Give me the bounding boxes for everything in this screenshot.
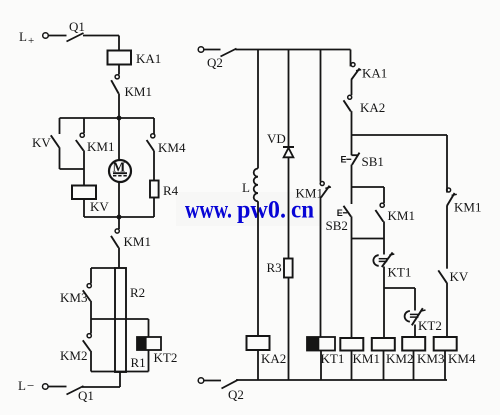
svg-text:pw0.: pw0. (237, 197, 286, 224)
switch Q2 bottom (204, 380, 238, 389)
right ladder: contact KM1 (447, 135, 457, 269)
relay coil KV (72, 186, 109, 218)
terminal L+ (19, 29, 48, 47)
svg-text:cn: cn (291, 197, 314, 224)
contact KV (right) (438, 270, 447, 337)
svg-text:KT2: KT2 (418, 318, 442, 333)
svg-text:KM1: KM1 (388, 208, 415, 223)
contact KM1 (below motor mesh) (111, 217, 119, 268)
svg-text:R2: R2 (130, 285, 145, 300)
branch wire to right ladder (352, 134, 448, 136)
main ladder: KA1 contact (351, 50, 362, 96)
contact KV (left) (51, 118, 84, 169)
bottom rail of motor mesh (84, 216, 154, 218)
svg-text:Q1: Q1 (78, 388, 94, 403)
wire down to Q1 bottom (119, 372, 121, 388)
junction dot (117, 215, 122, 220)
diode VD branch (283, 50, 294, 259)
svg-text:E: E (341, 155, 347, 165)
svg-text:L: L (242, 180, 250, 195)
wire (118, 65, 120, 75)
contact KM1 (parallel with KV) (76, 118, 84, 186)
contact KM4 (147, 118, 155, 181)
svg-text:SB1: SB1 (362, 154, 384, 169)
svg-text:KM4: KM4 (158, 140, 186, 155)
terminal Q2 bottom (198, 378, 204, 384)
svg-text:KM1: KM1 (125, 84, 152, 99)
svg-text:KV: KV (450, 269, 469, 284)
switch Q2 top (204, 49, 237, 57)
svg-text:KA2: KA2 (261, 351, 286, 366)
switch Q1 top (48, 33, 119, 42)
svg-text:L: L (18, 378, 26, 393)
svg-text:Q2: Q2 (228, 387, 244, 402)
svg-text:KT1: KT1 (321, 351, 345, 366)
svg-text:R3: R3 (267, 260, 282, 275)
pushbutton SB2 (NO) (343, 187, 352, 239)
contact KM1 (KT1 branch) (320, 50, 331, 338)
time relay coil KT2 (left circuit) (137, 319, 178, 372)
contactor coil KM1 (bottom row) (340, 338, 380, 380)
top rail of motor mesh (60, 117, 155, 119)
switch Q1 bottom (48, 386, 120, 395)
svg-text:KM3: KM3 (417, 351, 444, 366)
svg-text:VD: VD (267, 131, 286, 146)
svg-text:KM1: KM1 (124, 234, 151, 249)
svg-text:KM1: KM1 (87, 139, 114, 154)
svg-text:www.: www. (185, 197, 232, 224)
contact KM2 (83, 319, 91, 372)
svg-text:KA1: KA1 (362, 66, 387, 81)
svg-text:KM3: KM3 (60, 290, 87, 305)
relay coil KA2 (bottom row) (247, 336, 287, 380)
svg-text:KT1: KT1 (388, 265, 412, 280)
terminal Q2 top (198, 47, 204, 53)
svg-text:KM1: KM1 (353, 351, 380, 366)
junction dot (117, 116, 122, 121)
svg-text:KT2: KT2 (154, 350, 178, 365)
time contact KT2 (delayed) (405, 288, 426, 337)
contactor coil KM3 (bottom row) (402, 337, 444, 380)
wire down to KM1 coil (351, 239, 353, 339)
contact KM1 (below KA1) (111, 75, 119, 118)
motor M (109, 118, 131, 217)
wire to KA1 (118, 36, 120, 52)
terminal L- (18, 378, 48, 393)
svg-text:Q2: Q2 (207, 55, 223, 70)
svg-text:KV: KV (32, 135, 51, 150)
pushbutton SB1 (NC) (346, 135, 359, 187)
contactor coil KM4 (bottom row) (434, 337, 476, 380)
contact KM3 (83, 268, 91, 319)
wire down to KM2 coil (383, 288, 385, 338)
time relay coil KT1 (bottom row) (307, 337, 345, 380)
svg-text:Q1: Q1 (69, 19, 85, 34)
svg-text:KM2: KM2 (386, 351, 413, 366)
svg-text:R4: R4 (163, 183, 179, 198)
branch wire to seal-in (352, 186, 385, 188)
svg-text:KV: KV (90, 199, 109, 214)
resistor R2/R1 block (91, 268, 149, 372)
branch wire to KT2 (384, 287, 415, 289)
time contact KT1 (delayed) (373, 239, 394, 289)
svg-text:+: + (28, 35, 34, 47)
svg-text:KM1: KM1 (296, 186, 323, 201)
contactor coil KM2 (bottom row) (372, 338, 414, 380)
inductor L branch (254, 50, 258, 337)
svg-text:KM4: KM4 (448, 351, 476, 366)
svg-text:R1: R1 (131, 355, 146, 370)
svg-text:KM2: KM2 (60, 348, 87, 363)
svg-text:KA2: KA2 (360, 100, 385, 115)
contact KM1 (seal-in) (375, 187, 384, 239)
resistor R3 (267, 259, 293, 381)
resistor R4 (150, 181, 179, 218)
svg-text:E: E (337, 208, 343, 218)
svg-text:SB2: SB2 (326, 218, 348, 233)
bottom rail of resistor mesh (91, 371, 149, 373)
svg-text:KA1: KA1 (136, 51, 161, 66)
watermark www.pw0.cn (176, 192, 320, 226)
rejoin wire (352, 238, 385, 240)
svg-text:KM1: KM1 (454, 200, 481, 215)
svg-text:−: − (27, 378, 34, 393)
relay coil KA1 (108, 51, 162, 67)
svg-text:L: L (19, 29, 27, 44)
top bus (236, 49, 351, 51)
contact KA2 (344, 95, 352, 135)
bottom bus (236, 379, 447, 381)
